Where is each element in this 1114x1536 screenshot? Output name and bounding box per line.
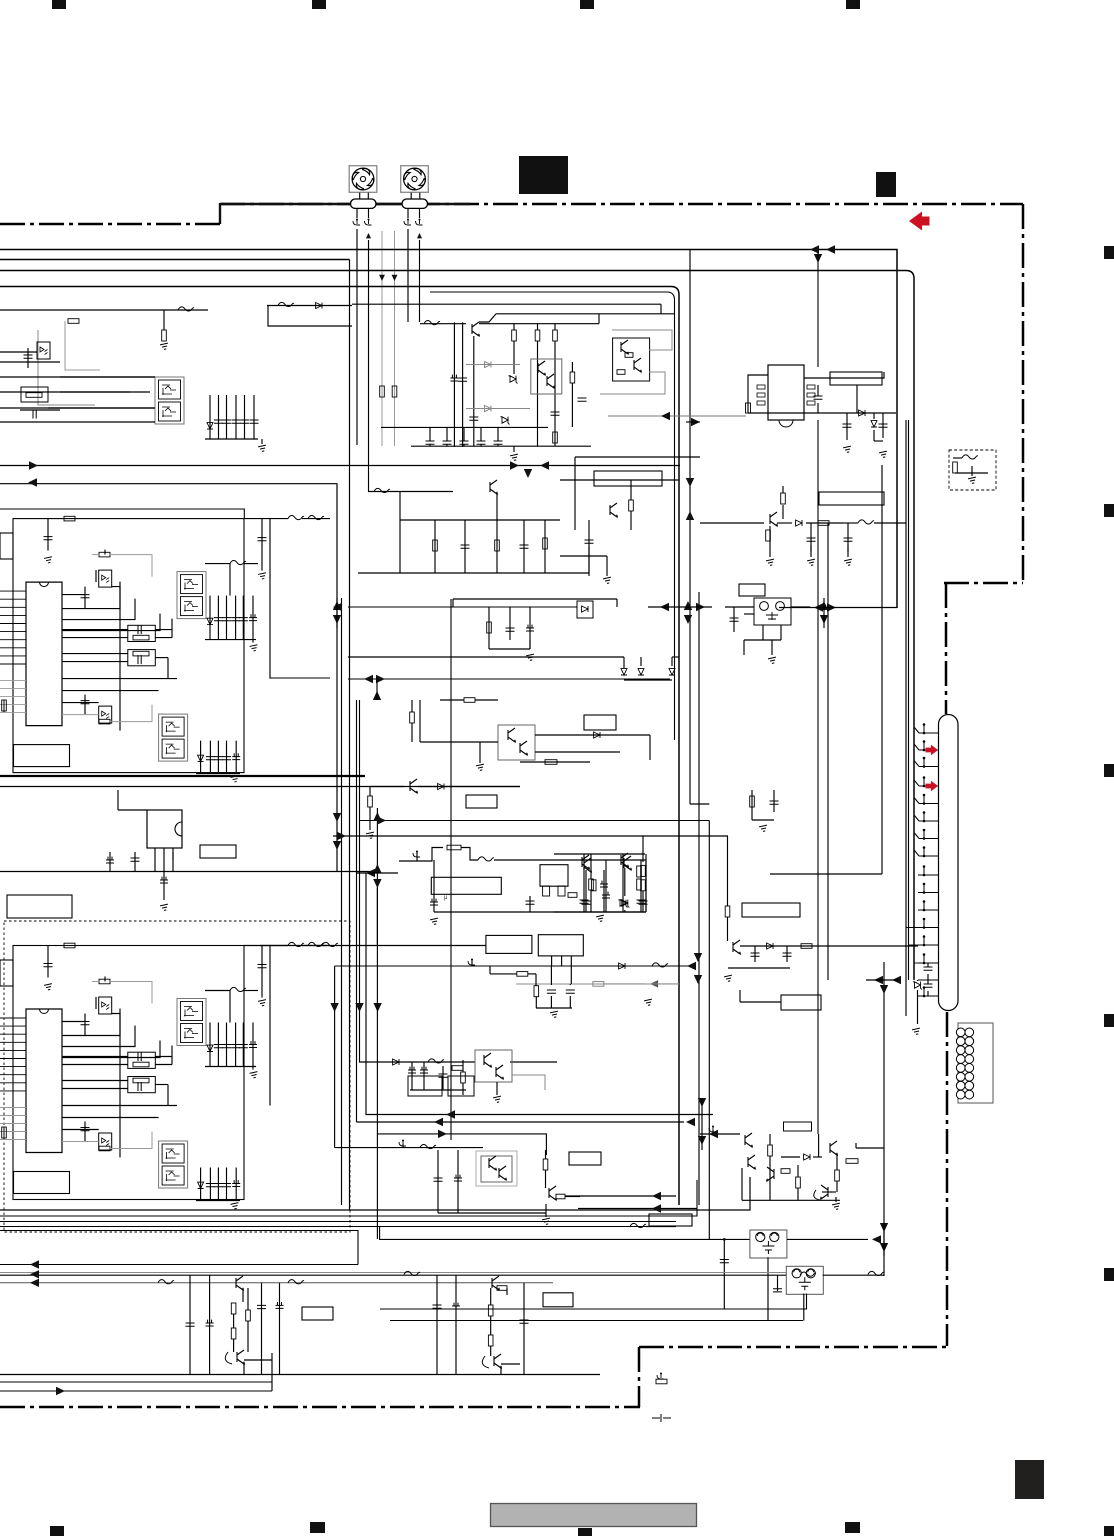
wire y322 squiggle (420, 323, 466, 325)
channel-2 ground B (231, 1203, 240, 1210)
aux2 wires (410, 1089, 466, 1091)
resistor R上5 (570, 372, 575, 383)
bus wire 3 (0, 271, 914, 981)
heatsink regulator Q9 (147, 810, 182, 848)
squiggle right cluster (868, 1271, 884, 1275)
opto cluster wires (420, 741, 498, 743)
channel-2 cap bank B bottom (196, 1200, 240, 1202)
transistor Q33 (494, 1354, 501, 1368)
channel-1 outer box (13, 519, 244, 773)
channel-2 IC block (26, 1009, 62, 1153)
arrow line y1264 (0, 1264, 358, 1266)
line y1391 (0, 1390, 272, 1392)
connector CN upper pins (919, 732, 939, 734)
channel-1 wires A (62, 594, 85, 596)
registration mark right 1 (1104, 246, 1114, 259)
wire y427 (381, 426, 548, 428)
upc resistors (591, 880, 596, 891)
channel-1 wires RC (62, 629, 128, 631)
wire y775 transistor (0, 775, 365, 777)
frame border top right section (220, 203, 1023, 206)
diode D上1 (207, 423, 213, 429)
label box LB8 (819, 492, 884, 505)
verticals x356 x359 (356, 700, 358, 1122)
channel-1 mosfet driver A (177, 572, 206, 619)
regulator caps (134, 852, 136, 872)
junction arrows x824 (814, 603, 823, 611)
IC U11 (538, 935, 583, 956)
wire y480 right (560, 479, 679, 481)
Q cluster bottom wire (742, 1199, 840, 1201)
bundle y1216 (0, 1180, 697, 1216)
wire y326 right (268, 306, 352, 326)
cap bank bottom wire (205, 438, 258, 440)
snubber caps (810, 523, 812, 552)
channel-2 resistor RB grey (99, 1146, 110, 1151)
grey wire loop (65, 321, 100, 370)
vertical x690 (689, 250, 691, 805)
junction arrows left x337 (333, 601, 341, 610)
arrow line y1283 (0, 1282, 553, 1284)
registration mark bottom 1 (50, 1526, 64, 1536)
corner x661 (660, 304, 662, 313)
low cluster (534, 986, 539, 997)
wire y446 (411, 445, 591, 447)
wire y871 (0, 871, 377, 873)
bundle y1230 (0, 1231, 358, 1265)
IC U2 top wires (748, 375, 768, 400)
transistor Q30 (236, 1276, 243, 1290)
left edge connector bracket (0, 533, 13, 559)
resistor R低1 (368, 796, 373, 807)
dotted enclosure channel-2 (4, 921, 350, 1232)
Qbtm-left verticals (189, 1275, 191, 1374)
cluster Q-right wires (554, 853, 645, 855)
cap bank verticals (209, 395, 211, 439)
channel-1 label box (14, 745, 70, 767)
cluster Q-right gnd (645, 854, 647, 912)
pin feed wires (906, 875, 918, 928)
label box LB4 (200, 845, 236, 858)
diode box K1 (577, 601, 593, 618)
cap C上1 (27, 348, 29, 368)
label box LB2 (584, 715, 616, 730)
channel-1 ground B (231, 776, 240, 783)
wire y491 squiggle (368, 491, 453, 493)
junction arrows x688 (684, 601, 692, 610)
wire y966 (335, 965, 690, 967)
diode D低1 (438, 784, 444, 790)
transistor Q31 (237, 1350, 244, 1364)
channel-1 IC lower pins grey (0, 680, 26, 682)
grey diodes (485, 362, 491, 368)
fan2 wire drops (407, 229, 409, 322)
resistor near border (656, 1379, 667, 1384)
signal wire y1114 (366, 873, 713, 1115)
frame border right jog horizontal (944, 582, 1023, 585)
channel-2 wires A (62, 1021, 85, 1023)
registration mark bottom 3 (578, 1528, 592, 1536)
channel-1 supply resistor (64, 516, 75, 521)
filter FL2 (786, 1266, 823, 1294)
channel-2 long vertical (119, 1009, 121, 1158)
registration mark top 4 (846, 0, 860, 9)
channel-1 RC pair 2 (128, 650, 156, 666)
vertical x368 drop (368, 445, 370, 492)
FL1 caps (723, 1239, 725, 1309)
wire exit right y416 (608, 415, 746, 417)
cluster Q-right parts (582, 855, 589, 869)
drop to gnd x164 (163, 310, 165, 330)
optocoupler PC低2 (475, 1050, 512, 1082)
bus vertical x349 (349, 260, 351, 1211)
caps cluster y626 (488, 607, 490, 649)
FL1 drop (767, 1257, 769, 1320)
resistor R上6 (553, 432, 558, 443)
channel-1 IC block (26, 582, 62, 726)
channel-2 squiggles top (288, 942, 304, 946)
squiggle wire right (267, 305, 352, 307)
IC U11 legs (551, 956, 553, 966)
FL2 drop (803, 1294, 805, 1321)
red arrow page link (909, 212, 930, 231)
wire y679 arrows (348, 678, 670, 680)
channel-2 resistor RA (99, 979, 110, 984)
wire y836 (333, 835, 728, 837)
bottom-right twin cluster verticals (436, 1275, 438, 1374)
connector CN2 pins (956, 1028, 965, 1037)
Q20 parts (768, 1145, 773, 1156)
IC U2 side pins (757, 385, 765, 389)
registration mark top 1 (52, 0, 66, 9)
label box LB16 (742, 903, 800, 917)
grey line y1272 (0, 1272, 786, 1274)
channel-1 squiggles top (288, 515, 304, 519)
red arrow signal 2 (926, 781, 939, 791)
channel-1 cap+gnd (47, 519, 49, 551)
snubber squiggle (858, 520, 874, 524)
rowB label boxes (408, 1076, 442, 1096)
black label block A (519, 156, 568, 194)
registration mark right 4 (1104, 1014, 1114, 1027)
transistor Q20 (745, 1133, 752, 1147)
label box LB5 (7, 895, 72, 918)
junction arrows J7 (694, 953, 702, 962)
cap bank symbols (214, 420, 223, 423)
wire y984 grey (516, 983, 679, 985)
squiggle on y310 (178, 307, 194, 311)
grey title bar (491, 1504, 697, 1527)
line y1239 (380, 1227, 750, 1240)
channel-1 cap bank A bottom (205, 639, 256, 641)
wire y463 (0, 465, 680, 467)
channel-1 wire mid (62, 678, 177, 680)
mosfet driver box M0 (155, 377, 184, 424)
channel-2 right verticals (261, 946, 263, 973)
vertical x882 (881, 465, 883, 874)
channel-2 cap+gnd (47, 946, 49, 978)
channel-2 outer box (13, 946, 244, 1200)
wire path upc (399, 848, 443, 862)
ground gnd上2 (513, 446, 515, 452)
channel-1 cap CB (84, 695, 86, 715)
grey link wires (612, 330, 672, 350)
driver box U上2 (613, 338, 650, 381)
transistor Q21 (830, 1141, 837, 1155)
channel-2 inner verticals (229, 991, 231, 1023)
label box LB14 (543, 1293, 573, 1307)
wire y304 (352, 303, 661, 305)
bus wire B+ top (0, 250, 897, 609)
transistor Q右1 (770, 512, 777, 526)
registration mark top 3 (580, 0, 594, 9)
vertical x768 resistor (766, 530, 771, 541)
label box LB15 (569, 1152, 601, 1165)
cap+gnd below (163, 872, 165, 901)
wire y649 (489, 648, 530, 650)
channel-1 resistor RB grey (99, 719, 110, 724)
channel-2 cap bank B (200, 1168, 202, 1201)
Q cluster feed (818, 1134, 820, 1157)
rowB opto box (481, 1156, 512, 1182)
zener Z上1 (508, 376, 517, 384)
label box LB13 (302, 1307, 333, 1320)
svg-text:μ: μ (444, 895, 448, 901)
channel-2 cap bank A bottom (205, 1066, 256, 1068)
resistor R上4 (553, 330, 558, 341)
rowB bottom wire (438, 1212, 546, 1214)
channel-1 cap CA (84, 587, 86, 609)
upc pcap (605, 860, 607, 912)
snubber feed (782, 505, 784, 519)
wire y874 (770, 873, 882, 875)
regulator top wire (118, 809, 147, 811)
channel-2 label box (14, 1172, 70, 1194)
upc bottom wire (434, 911, 646, 913)
vertical x906 (905, 420, 907, 1016)
channel-2 mosfet driver A (177, 999, 206, 1046)
frame border solid under fans (221, 203, 470, 205)
fan motor FAN1 stub wires (359, 193, 361, 200)
ground gnd中2 (526, 654, 535, 661)
label box LB1 (594, 471, 662, 486)
opto filter U5 (754, 598, 791, 625)
Q cluster btm wires (700, 1133, 740, 1135)
wire drop x818 lower (817, 420, 819, 1134)
wire y482 arrow (28, 478, 37, 486)
frame border below connector (946, 1012, 949, 1346)
vertical x451 (450, 599, 452, 1140)
channel-2 wire mid (62, 1105, 177, 1107)
wire y1194 arrow (565, 1195, 676, 1197)
regulator legs (154, 848, 156, 872)
wire y786 (0, 786, 520, 788)
resistor R上2 (512, 330, 517, 341)
pin stub (416, 852, 418, 861)
wire y945 squiggle (260, 945, 486, 947)
wire drop x818 (817, 252, 819, 367)
wire label l1 (740, 1001, 781, 1003)
regulator row y946 (733, 940, 740, 954)
wire y873 short (356, 872, 398, 874)
snubber diode (796, 520, 802, 526)
channel-1 optocoupler B (99, 706, 112, 723)
fan1 wire drops (356, 229, 358, 445)
resistor R中4 (410, 712, 415, 723)
label box LB12 (649, 1214, 692, 1226)
label box LB11 (781, 995, 821, 1010)
registration mark bottom 2 (310, 1522, 325, 1533)
channel-2 diode DA (207, 1045, 213, 1051)
frame border bottom (0, 1406, 640, 1409)
label box LB9 (739, 584, 765, 596)
fan motor FAN2 plug (402, 199, 428, 208)
connector CN pill (939, 715, 959, 1011)
frame border lower jog vertical (638, 1347, 641, 1407)
driver box U上1 (531, 359, 562, 394)
FL2 cap (777, 1275, 779, 1291)
bus wire 2 (0, 259, 350, 261)
verticals x710 x716 (708, 821, 710, 1240)
signal wire y1122 (357, 1121, 685, 1123)
snubber grounds (766, 559, 775, 566)
wire bottom y573 (358, 572, 589, 574)
wire y820 (360, 820, 709, 822)
bundle y1221 (0, 1221, 676, 1223)
label box near U2 (830, 372, 882, 385)
black label block B (876, 172, 896, 197)
rect top y599 (453, 598, 617, 600)
channel-2 IC lower pins grey (0, 1107, 26, 1109)
wire y313 (496, 313, 675, 315)
zener at connector (913, 982, 922, 990)
channel-1 resistor RA (99, 552, 110, 557)
frame border top step (219, 203, 221, 224)
fan2 connector hooks (404, 220, 411, 225)
registration mark right 5 (1104, 1268, 1114, 1281)
wire y776 (0, 776, 365, 778)
wire y1208 arrow (578, 1208, 697, 1210)
channel-1 mosfet driver B (159, 714, 188, 761)
opto filter U5 wires (762, 625, 764, 640)
RC pair above (751, 790, 753, 820)
channel-1 optocoupler A (99, 570, 112, 587)
vertical x699 (698, 592, 700, 1205)
wire u2 right links (804, 372, 884, 378)
channel-2 cap CA (84, 1014, 86, 1036)
IC U2 box (768, 365, 804, 420)
cap bank row (426, 441, 435, 444)
ground gnd上1 (261, 439, 263, 444)
resistor R中3 (464, 698, 475, 703)
channel-2 supply resistor (64, 943, 75, 948)
label box LB3 (466, 795, 497, 808)
channel-1 right verticals (261, 519, 263, 546)
fan sense arrows (379, 275, 385, 281)
channel-2 RC pair 2 (128, 1077, 156, 1093)
signal wire y1134 (376, 888, 378, 1239)
frame border lower jog horizontal (639, 1346, 947, 1349)
bundle y1226 (0, 1226, 660, 1228)
junction arrows J8 (874, 976, 883, 984)
wire y700 (440, 699, 464, 701)
fan sense resistors (380, 386, 385, 397)
aux2 caps (411, 1062, 413, 1090)
channel-1 squiggle res (230, 560, 246, 564)
red arrow signal 1 (926, 745, 939, 755)
rowB caps (437, 1150, 439, 1213)
vertical x377 (376, 808, 378, 945)
IC U2 notch (779, 420, 793, 427)
channel-1 feed wire (270, 677, 330, 679)
channel-1 cap bank B (200, 741, 202, 774)
fan motor FAN1 plug (351, 199, 377, 208)
channel-2 mosfet driver B (159, 1141, 188, 1188)
resistor R上1 (68, 319, 79, 324)
channel-1 long vertical (119, 582, 121, 731)
channel-2 optocoupler A (99, 997, 112, 1014)
verticals x454 x462 (453, 322, 455, 447)
line y1275 right (823, 1274, 884, 1276)
line y1309 (380, 1294, 807, 1310)
RC legs after diode (846, 413, 848, 440)
fan motor FAN2 stub wires (410, 193, 412, 200)
registration mark corner (1104, 1526, 1114, 1536)
fan1 connector hooks (353, 220, 360, 225)
channel-1 diode DA (207, 618, 213, 624)
channel-2 diode DB (198, 1182, 204, 1188)
bus wire 4 (0, 287, 679, 1206)
fan motor FAN1 (349, 166, 377, 193)
vertical x341 (341, 598, 343, 1205)
junction arrows J5 (333, 813, 341, 822)
ground gnd中1 (603, 577, 612, 584)
frame border right vertical (1022, 204, 1025, 583)
box mid-right (575, 456, 700, 458)
channel-1 cap bank A (209, 596, 211, 640)
registration mark top 2 (312, 0, 326, 9)
junction arrows J6 (373, 812, 381, 821)
cap below border (652, 1414, 671, 1422)
line y1275 (0, 1274, 786, 1276)
RC pair box (21, 387, 48, 402)
line y1374 (0, 1374, 600, 1376)
channel-1 diode DB (198, 755, 204, 761)
transistor Q中1 (490, 480, 497, 494)
channel-2 cap bank A (209, 1023, 211, 1067)
wire y482 (0, 484, 337, 872)
transistor Q上1 (472, 322, 479, 336)
fan1 wires (356, 209, 358, 218)
upc caps (529, 896, 531, 912)
cluster components (433, 540, 438, 551)
upc junction leg (433, 860, 435, 912)
connector CN2 box (958, 1023, 993, 1103)
transistor Q低1 (410, 779, 417, 793)
channel-1 IC left pins (0, 590, 26, 592)
verticals top resistors (513, 341, 515, 374)
wire y1060 (404, 1061, 475, 1063)
line y1382 (0, 1381, 272, 1383)
aux2 resistors (452, 1066, 463, 1071)
wire y657 zeners (348, 656, 624, 658)
bus arrows on B+ (810, 245, 819, 253)
fan motor FAN2 (401, 166, 429, 193)
frame border right jog vertical (945, 583, 948, 714)
Q21 parts (835, 1170, 840, 1181)
fan sense wires (grey) (381, 231, 383, 446)
left io stubs (3, 700, 5, 712)
